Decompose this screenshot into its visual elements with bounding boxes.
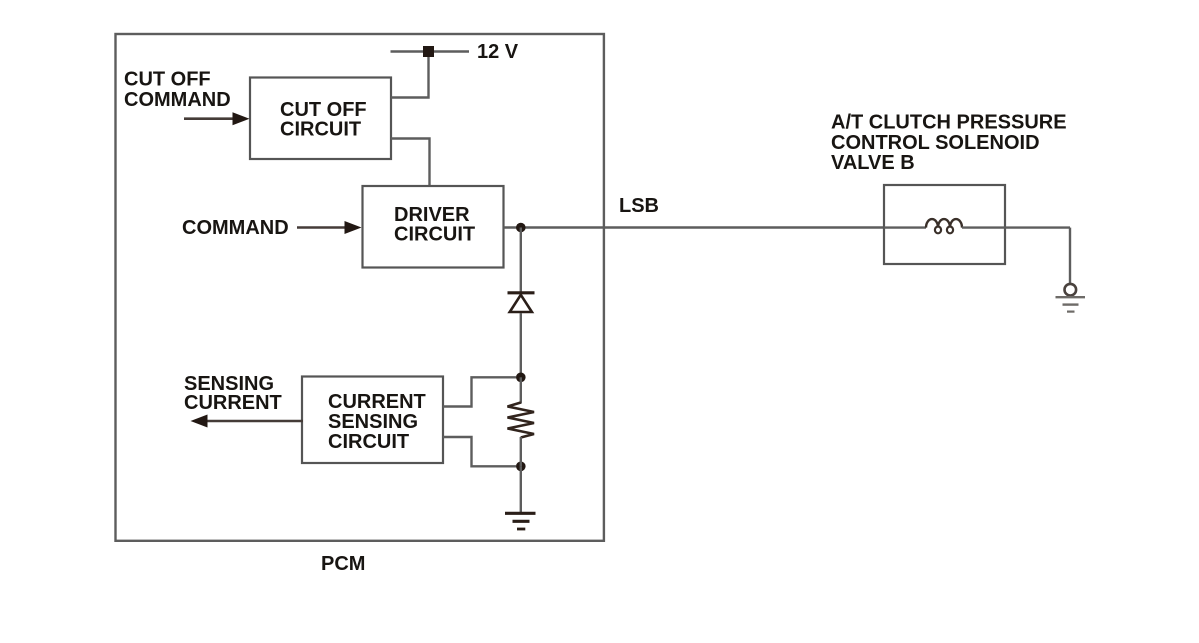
wire into solenoid coil xyxy=(884,226,926,228)
node B junction dot xyxy=(516,462,526,472)
node 12V square junction xyxy=(423,46,434,57)
inductor solenoid coil L1 xyxy=(926,219,962,228)
wire down to chassis ground xyxy=(1069,228,1071,284)
wire down to diode xyxy=(520,228,522,293)
svg-text:LSB: LSB xyxy=(619,195,659,217)
wire cutoff box to 12V node xyxy=(391,57,429,98)
node junction dot driver output xyxy=(516,223,526,233)
wire coil to box edge and out xyxy=(962,226,1070,228)
wire 12V supply horizontal xyxy=(391,50,470,52)
svg-text:CONTROL SOLENOID: CONTROL SOLENOID xyxy=(831,132,1040,154)
ground PCM internal xyxy=(505,512,536,515)
wire sensing box to node A xyxy=(443,377,516,406)
wire node B to ground xyxy=(520,466,522,512)
resistor current sense shunt xyxy=(508,403,535,438)
svg-text:CIRCUIT: CIRCUIT xyxy=(280,118,361,140)
PCM enclosure box xyxy=(116,34,604,541)
arrow command input xyxy=(297,226,347,229)
wire driver output LSB line xyxy=(504,226,885,228)
ground chassis G101 xyxy=(1065,284,1077,296)
driver circuit box xyxy=(363,186,504,268)
svg-text:CIRCUIT: CIRCUIT xyxy=(328,431,409,453)
svg-text:A/T CLUTCH PRESSURE: A/T CLUTCH PRESSURE xyxy=(831,112,1067,134)
svg-text:SENSING: SENSING xyxy=(328,411,418,433)
current sensing circuit box xyxy=(302,377,443,464)
svg-text:CURRENT: CURRENT xyxy=(184,392,282,414)
wire resistor to node B xyxy=(520,437,522,466)
wire node A to resistor xyxy=(520,377,522,403)
svg-text:PCM: PCM xyxy=(321,553,365,575)
cut off circuit box xyxy=(250,78,391,160)
svg-text:COMMAND: COMMAND xyxy=(124,89,231,111)
arrow cut off command input xyxy=(184,117,235,120)
wire sensing box to node B xyxy=(443,437,516,466)
diode flyback xyxy=(508,291,535,294)
wire diode to node A xyxy=(520,313,522,377)
arrow sensing current output xyxy=(206,420,303,423)
solenoid valve box xyxy=(884,185,1005,264)
svg-text:COMMAND: COMMAND xyxy=(182,217,289,239)
svg-text:CURRENT: CURRENT xyxy=(328,391,426,413)
svg-text:CIRCUIT: CIRCUIT xyxy=(394,224,475,246)
node A junction dot xyxy=(516,373,526,383)
svg-text:VALVE B: VALVE B xyxy=(831,152,915,174)
svg-text:CUT OFF: CUT OFF xyxy=(124,68,211,90)
svg-text:12 V: 12 V xyxy=(477,41,519,63)
wire cutoff box to driver box xyxy=(391,139,430,187)
